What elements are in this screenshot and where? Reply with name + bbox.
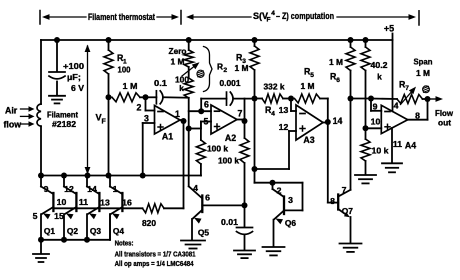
svg-text:1 M: 1 M xyxy=(301,81,315,91)
svg-text:1 M: 1 M xyxy=(329,57,343,67)
svg-text:10 k: 10 k xyxy=(372,146,389,156)
label: A4 xyxy=(405,141,416,151)
label: pin 9 (A4) xyxy=(373,101,378,111)
wire pin6 to 0.001 cap xyxy=(201,99,226,112)
svg-text:11: 11 xyxy=(393,139,402,149)
svg-text:Zero: Zero xyxy=(169,46,187,56)
svg-text:3: 3 xyxy=(288,195,293,205)
wire +5 stub down to A4 pin 4 xyxy=(392,34,394,112)
label: 1 M (A1) xyxy=(123,81,138,91)
wire pin9 node to R7 xyxy=(371,98,397,101)
label: Q4 xyxy=(113,226,125,236)
svg-text:2: 2 xyxy=(137,103,142,113)
capacitor C1 100uF 6V xyxy=(49,37,65,95)
svg-text:9: 9 xyxy=(44,184,49,194)
capacitor 0.01uF xyxy=(237,205,253,250)
svg-text:Q7: Q7 xyxy=(342,206,354,216)
svg-text:8: 8 xyxy=(330,196,335,206)
wire to Q6 collector xyxy=(255,169,276,186)
label: Q1 collector pin 9 xyxy=(44,184,49,194)
label: pin 10 (A4) xyxy=(371,116,381,126)
dimension bar right xyxy=(418,11,420,25)
label: 0.01 xyxy=(221,217,238,227)
svg-text:F: F xyxy=(102,118,107,125)
ground emitter bus xyxy=(33,240,49,262)
svg-text:13: 13 xyxy=(100,198,110,208)
svg-text:Q3: Q3 xyxy=(90,226,102,236)
label: R4 xyxy=(265,105,275,118)
svg-text:out: out xyxy=(438,118,451,128)
label: 100 k (chain) xyxy=(175,76,189,94)
resistor 10k xyxy=(361,128,370,174)
pot wiper arrow R7 xyxy=(401,87,417,105)
brace R2 xyxy=(204,47,213,92)
wire Q5 base rail xyxy=(202,202,247,208)
VF arrow xyxy=(85,45,91,175)
label: pin 5 xyxy=(204,117,209,127)
dimension arrow left (computation) xyxy=(186,14,251,20)
svg-text:7: 7 xyxy=(238,109,243,119)
label: pin 8 (A4) xyxy=(415,110,420,120)
svg-text:1 M: 1 M xyxy=(171,57,185,67)
transistor Q2 xyxy=(64,176,76,240)
wire A2 output xyxy=(237,99,249,206)
op-amp A2 xyxy=(211,105,237,134)
transistor Q4 xyxy=(110,176,122,240)
label: 100 k (A2 out) xyxy=(218,157,240,166)
svg-text:Filament: Filament xyxy=(47,111,78,120)
svg-text:Flow: Flow xyxy=(435,108,453,118)
svg-text:15: 15 xyxy=(54,211,64,221)
notes text xyxy=(115,239,197,268)
svg-text:+5: +5 xyxy=(384,24,394,34)
label: R3 1M xyxy=(235,53,249,74)
wire base rail to 820 xyxy=(53,207,142,209)
op-amp A1 xyxy=(155,106,181,135)
wire A4 pin10 xyxy=(366,127,382,129)
svg-text:4: 4 xyxy=(193,183,198,193)
label: pin 4 (A4) xyxy=(394,101,399,111)
svg-text:Span: Span xyxy=(414,57,433,67)
label: 332 k xyxy=(264,81,285,91)
svg-text:7: 7 xyxy=(405,85,409,92)
ground Q6 xyxy=(263,247,285,255)
resistor 40.2k xyxy=(361,37,370,131)
label: Span 1M xyxy=(414,57,433,79)
wire A1 pin2 xyxy=(146,97,155,110)
label: pin 3 (Q6) xyxy=(288,195,293,205)
svg-text:All transistors = 1/7 CA3081: All transistors = 1/7 CA3081 xyxy=(115,249,197,258)
label: Air flow xyxy=(4,106,22,130)
svg-text:R: R xyxy=(217,62,223,72)
svg-text:0.01: 0.01 xyxy=(221,217,238,227)
svg-text:5: 5 xyxy=(204,117,209,127)
label: S(VF4-Z) computation xyxy=(253,10,334,23)
label: Q2 xyxy=(67,226,79,236)
ground 10k xyxy=(355,175,376,183)
wire left border xyxy=(40,40,42,104)
transistor Q3 xyxy=(87,176,99,240)
label: R2 xyxy=(217,62,227,75)
svg-text:100 k: 100 k xyxy=(207,145,229,154)
air flow arrows xyxy=(21,106,35,127)
wire A3 pin12 xyxy=(255,131,297,169)
svg-text:A3: A3 xyxy=(303,135,314,145)
label: R6 xyxy=(330,72,340,85)
label: R1 100 xyxy=(117,53,131,75)
wire Q6 collector-base tie xyxy=(273,183,303,211)
wire A2 pin6 xyxy=(189,108,211,114)
label: pin 11 (A4) xyxy=(393,139,402,149)
label: pin 8 (Q7) xyxy=(330,196,335,206)
capacitor 0.001uF xyxy=(227,92,255,105)
svg-text:5: 5 xyxy=(33,211,38,221)
label: R5 xyxy=(304,67,314,80)
wire A4 pin11 xyxy=(391,128,393,163)
trimmer symbol (zero) xyxy=(197,70,204,77)
label: pin 14 xyxy=(333,116,343,126)
label: Filament thermostat xyxy=(88,12,155,22)
label: A1 xyxy=(162,132,173,142)
svg-text:14: 14 xyxy=(333,116,343,126)
label: pin 7 xyxy=(238,109,243,119)
svg-text:16: 16 xyxy=(122,198,132,208)
svg-text:A1: A1 xyxy=(162,132,173,142)
wire A3out to Q7 base xyxy=(328,202,338,204)
label: Flow out xyxy=(435,108,453,128)
svg-text:– Z) computation: – Z) computation xyxy=(276,11,334,21)
label: 0.1 xyxy=(154,78,167,88)
svg-text:A4: A4 xyxy=(405,141,416,151)
label: Q2 collector pin 12 xyxy=(64,184,74,194)
wire top rail +5 xyxy=(41,39,393,41)
label: Q7 xyxy=(342,206,354,216)
label: pin 2 (Q6) xyxy=(277,185,282,195)
transistor Q1 xyxy=(41,176,53,240)
resistor R4 332k xyxy=(257,94,294,103)
label: pin 1 xyxy=(175,109,180,119)
label: Q3 xyxy=(90,226,102,236)
svg-text:4: 4 xyxy=(271,111,275,118)
wire Q7 collector up xyxy=(348,96,354,190)
filament #2182 coil xyxy=(37,104,41,176)
resistor 100k (A2 pin5) xyxy=(196,122,205,176)
wire A4 output xyxy=(408,96,431,120)
svg-text:µF;: µF; xyxy=(67,72,81,82)
svg-text:1 M: 1 M xyxy=(235,63,249,73)
ground Q7 xyxy=(340,244,362,252)
label: pin 6 xyxy=(204,99,209,109)
svg-text:2: 2 xyxy=(223,67,227,74)
svg-text:12: 12 xyxy=(279,122,289,132)
svg-text:13: 13 xyxy=(279,105,289,115)
wire R6/Q7 to pin9 node xyxy=(351,96,375,102)
wire A1 output down to 820 xyxy=(180,118,187,208)
svg-text:12: 12 xyxy=(64,184,74,194)
wire chain to Q5 collector xyxy=(189,186,203,198)
label: pin 12 (A3) xyxy=(279,122,289,132)
svg-text:820: 820 xyxy=(142,218,156,228)
label: Q5 xyxy=(198,228,210,238)
wire A2 pin5 xyxy=(186,122,211,132)
flow out arrow xyxy=(429,96,443,102)
op-amp A3 xyxy=(296,105,323,140)
dimension arrow left (filament thermostat) xyxy=(42,14,86,20)
dimension bar mid xyxy=(180,11,182,25)
svg-text:40.2: 40.2 xyxy=(371,60,388,70)
svg-text:Q6: Q6 xyxy=(285,218,297,228)
dimension arrow right (computation) xyxy=(337,14,416,20)
pot wiper arrow xyxy=(182,62,200,76)
svg-text:flow: flow xyxy=(4,119,22,129)
label: 0.001 xyxy=(220,78,241,88)
svg-text:All op amps = 1/4 LMC6484: All op amps = 1/4 LMC6484 xyxy=(115,259,195,268)
wire emitter bus xyxy=(38,214,110,243)
svg-text:4: 4 xyxy=(394,101,399,111)
svg-text:7: 7 xyxy=(342,185,347,195)
label: base pins 10 11 13 16 xyxy=(57,197,132,208)
label: +100 uF 6V xyxy=(63,61,84,93)
dimension bar left xyxy=(39,11,41,25)
svg-text:100: 100 xyxy=(118,65,131,75)
transistor Q6 xyxy=(273,183,285,247)
svg-text:10: 10 xyxy=(57,197,67,207)
svg-text:14: 14 xyxy=(87,184,97,194)
ground C1 xyxy=(49,96,65,104)
svg-text:10: 10 xyxy=(371,116,381,126)
svg-text:9: 9 xyxy=(373,101,378,111)
label: Filament #2182 xyxy=(47,111,78,130)
ground Q5 xyxy=(181,241,205,249)
svg-text:0.001: 0.001 xyxy=(220,78,241,88)
label: Q4 collector pin 1 xyxy=(113,184,118,194)
wire collector bus xyxy=(38,173,201,179)
resistor 1M (A1 input) xyxy=(106,93,149,102)
wire A3 pin13 xyxy=(291,99,296,112)
svg-text:Air: Air xyxy=(5,106,18,116)
label: A3 xyxy=(303,135,314,145)
svg-text:k: k xyxy=(179,84,184,93)
transistor Q7 xyxy=(338,190,350,243)
svg-text:#2182: #2182 xyxy=(52,120,76,129)
svg-text:Q5: Q5 xyxy=(198,228,210,238)
label: A2 xyxy=(225,133,236,143)
svg-text:Q1: Q1 xyxy=(44,226,56,236)
wire R1 bottom to bus xyxy=(108,97,110,175)
ground A4 pin11 xyxy=(382,163,402,172)
trimmer symbol (span) xyxy=(423,86,430,93)
svg-text:Notes:: Notes: xyxy=(115,239,134,248)
dimension arrow right (filament thermostat) xyxy=(157,14,179,20)
resistor R6 1M xyxy=(346,37,355,99)
svg-text:1 M: 1 M xyxy=(416,68,430,78)
ground 0.01 xyxy=(234,251,255,259)
label: +5 xyxy=(384,24,394,34)
svg-text:0.1: 0.1 xyxy=(154,78,167,88)
resistor R5 1M xyxy=(295,94,328,122)
resistor 100k (zero chain) xyxy=(184,78,193,186)
label: 40.2 k xyxy=(371,60,388,82)
label: Q1 xyxy=(44,226,56,236)
svg-text:4: 4 xyxy=(271,10,275,17)
wire A4 pin9 xyxy=(371,99,381,111)
svg-text:A2: A2 xyxy=(225,133,236,143)
svg-text:6: 6 xyxy=(205,193,210,203)
label: Q3 collector pin 14 xyxy=(87,184,97,194)
label: 10 k xyxy=(372,146,389,156)
transistor Q5 xyxy=(192,196,202,241)
svg-text:Q4: Q4 xyxy=(113,226,125,236)
label: emitter pins 5 15 xyxy=(33,211,64,221)
resistor Zero 1M pot xyxy=(184,37,193,78)
svg-text:5: 5 xyxy=(310,72,314,79)
label: 1 M (R6) xyxy=(329,57,343,67)
svg-text:Filament thermostat: Filament thermostat xyxy=(88,12,155,22)
resistor R1 100 xyxy=(104,37,113,97)
resistor 820 xyxy=(143,204,184,213)
label: 820 xyxy=(142,218,156,228)
svg-text:332 k: 332 k xyxy=(264,81,285,91)
label: pin 13 (A3) xyxy=(279,105,289,115)
svg-text:1 M: 1 M xyxy=(123,81,138,91)
label: pin 6 (Q5) xyxy=(205,193,210,203)
svg-text:6 V: 6 V xyxy=(71,83,84,93)
svg-text:k: k xyxy=(377,72,382,82)
op-amp A4 xyxy=(381,105,407,133)
svg-text:1: 1 xyxy=(175,109,180,119)
label: R7 xyxy=(399,80,409,93)
svg-text:11: 11 xyxy=(79,197,88,207)
wire A1 pin3 xyxy=(140,123,155,179)
label: pin 4 (Q5) xyxy=(193,183,198,193)
label: 100 k (pin5) xyxy=(207,145,229,154)
label: Zero 1M xyxy=(169,46,187,67)
label: pin 2 xyxy=(137,103,142,113)
label: pin 7 (Q7) xyxy=(342,185,347,195)
svg-text:100 k: 100 k xyxy=(218,157,240,166)
capacitor 0.1uF xyxy=(146,91,189,104)
svg-text:1: 1 xyxy=(113,184,118,194)
label: VF xyxy=(96,113,107,126)
wire A3 output xyxy=(323,119,331,203)
resistor R3 1M xyxy=(250,37,259,99)
node A2out/R3/R4 xyxy=(252,96,258,173)
svg-text:3: 3 xyxy=(144,114,149,124)
svg-text:Q2: Q2 xyxy=(67,226,79,236)
label: pin 3 xyxy=(144,114,149,124)
svg-text:6: 6 xyxy=(204,99,209,109)
label: Q6 xyxy=(285,218,297,228)
svg-text:2: 2 xyxy=(277,185,282,195)
svg-text:F: F xyxy=(267,16,271,23)
resistor R7 span pot xyxy=(397,95,428,104)
label: 1 M (R5) xyxy=(301,81,315,91)
svg-text:+100: +100 xyxy=(63,61,84,71)
svg-text:6: 6 xyxy=(336,77,340,84)
